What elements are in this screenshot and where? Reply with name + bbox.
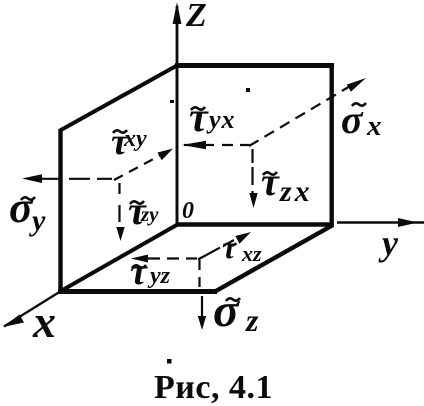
z-axis (173, 2, 182, 225)
svg-text:y: y (29, 204, 46, 237)
arrow tau_xy (up-right, on left face) (114, 149, 173, 181)
box edge: top-left diagonal (60, 66, 177, 131)
svg-text:Z: Z (185, 0, 207, 34)
stray dot speck upper (246, 88, 250, 92)
arrow tau_zx (down, on right face) (249, 149, 257, 208)
box edge: top-back (175, 63, 334, 68)
arrow tau_xz (up-right, on bottom face) (198, 232, 251, 260)
label sigma_x (341, 97, 382, 142)
svg-text:x: x (366, 110, 382, 142)
y-axis (337, 218, 424, 227)
svg-text:xy: xy (123, 126, 147, 152)
box edge: origin depth edge (x direction) (60, 225, 178, 292)
svg-text:y: y (378, 223, 399, 263)
label sigma_y (9, 183, 46, 237)
arrow sigma_y (left, from left face centre) (22, 174, 114, 183)
svg-text:yx: yx (206, 105, 236, 134)
label tau_zy (128, 188, 159, 233)
box edge: right-back vertical (330, 64, 334, 227)
box edge: front-left vertical (58, 129, 62, 292)
svg-text:yz: yz (147, 263, 171, 289)
label tau_yx (189, 95, 236, 141)
box edge: bottom-front (58, 289, 217, 294)
label sigma_z (213, 284, 259, 338)
label tau_xy (111, 121, 147, 163)
arrow tau_zy (down, on left face) (116, 183, 124, 241)
arrow sigma_z (down, from bottom face centre) (198, 260, 206, 330)
x-axis (3, 291, 61, 327)
box edge: back-left vertical (along z-axis) (176, 65, 179, 225)
svg-text:zy: zy (140, 202, 159, 226)
svg-text:0: 0 (182, 198, 194, 224)
box edge: bottom-right diagonal (215, 225, 333, 292)
svg-text:Рис, 4.1: Рис, 4.1 (154, 369, 273, 406)
svg-text:τ: τ (222, 229, 238, 265)
svg-text:xz: xz (241, 241, 262, 266)
label tau_zx (261, 159, 313, 208)
svg-text:τ: τ (189, 95, 209, 141)
stray dot speck lower (167, 359, 172, 364)
stray speck near z-axis (170, 100, 174, 103)
svg-text:σ: σ (9, 183, 34, 232)
arrow tau_yx (left, on right face) (182, 141, 250, 149)
label tau_yz (130, 251, 171, 293)
svg-text:z: z (245, 302, 259, 338)
svg-text:σ: σ (213, 284, 240, 337)
box edge: bottom-back (176, 222, 333, 226)
arrow sigma_x (dashed, up-right from right face centre) (249, 78, 366, 146)
svg-text:τ: τ (261, 159, 280, 204)
arrow tau_yz (left, on bottom face) (131, 255, 197, 263)
svg-text:x: x (32, 296, 56, 347)
svg-text:τ: τ (130, 251, 148, 293)
label tau_xz (222, 229, 262, 266)
svg-text:zx: zx (279, 175, 313, 208)
